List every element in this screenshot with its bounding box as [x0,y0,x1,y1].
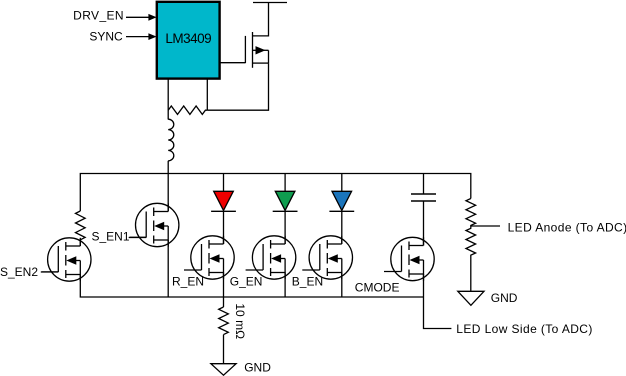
wire S_EN1 branch upper [167,174,169,212]
transistor CMODE [384,237,434,280]
resistor R4a (LED anode divider top) [466,199,476,227]
wire S_EN1 source to bottom bus [167,240,169,297]
svg-text:S_EN1: S_EN1 [92,229,130,243]
wire R1 to Q1 source [207,63,268,110]
wire blue LED branch upper [341,174,343,192]
transistor S_EN1 [129,203,179,246]
svg-text:10 mΩ: 10 mΩ [233,303,247,339]
top bus [80,174,471,212]
transistor Q1 (PMOS) [245,32,268,68]
wire R2 to S_EN2 drain [79,240,81,246]
resistor R4b (LED anode divider bottom) [466,226,476,256]
wire capacitor branch upper [423,174,425,195]
tap wire LED Anode [471,225,500,227]
resistor R2 (left branch) [76,211,86,240]
wire LM3409 gate drive to Q1 gate [220,62,246,64]
wire sense branch below bus [223,297,225,307]
wire R3 to GND [223,335,225,364]
ground (bottom) [211,361,271,376]
wire R_EN source to bottom bus [223,273,225,298]
IC U1 LM3409 [157,2,220,79]
LED D2 green [273,191,298,211]
svg-text:GND: GND [244,361,271,375]
wire B_EN source to bottom bus [341,273,343,298]
wire D3 to B_EN drain [341,211,343,244]
svg-text:DRV_EN: DRV_EN [73,8,124,22]
svg-text:S_EN2: S_EN2 [0,265,38,279]
transistor G_EN [246,236,296,279]
resistor R1 (sense, below LM3409) [168,106,207,114]
svg-text:CMODE: CMODE [355,280,400,294]
LED D1 red [211,191,236,211]
ground (right) [458,291,518,305]
label S_EN1 [92,229,147,243]
wire D2 to G_EN drain [284,211,286,244]
wire D1 to R_EN drain [223,211,225,244]
inductor L1 [168,119,174,161]
wire red LED branch upper [223,174,225,192]
label S_EN2 [0,265,58,279]
wire LM3409 pin2 down [206,79,208,111]
svg-text:SYNC: SYNC [89,29,123,43]
bottom bus [80,275,423,298]
power rail (top of Q1) [253,2,287,4]
svg-text:GND: GND [491,291,518,305]
svg-text:G_EN: G_EN [230,274,263,288]
wire C1 to CMODE drain [423,201,425,246]
svg-text:R_EN: R_EN [172,274,204,288]
wire G_EN source to bottom bus [284,273,286,298]
input label DRV_EN [73,8,156,22]
transistor R_EN [184,236,234,279]
svg-text:LM3409: LM3409 [165,31,211,46]
wire green LED branch upper [284,174,286,192]
capacitor C1 [411,194,436,201]
transistor S_EN2 [41,238,91,281]
transistor B_EN [302,236,352,279]
wire Q1 drain to rail [253,3,269,36]
resistor R3 10 mOhm [219,303,248,339]
wire L1 to top bus [167,161,169,174]
wire LM3409 pin1 down [167,79,169,120]
svg-text:LED Anode (To ADC): LED Anode (To ADC) [508,220,626,234]
svg-text:B_EN: B_EN [292,274,323,288]
svg-text:LED Low Side (To ADC): LED Low Side (To ADC) [456,322,592,336]
wire CMODE source down to LED low side [424,274,452,329]
LED D3 blue [329,191,354,211]
input label SYNC [89,29,156,43]
wire R4b to GND [470,256,472,291]
